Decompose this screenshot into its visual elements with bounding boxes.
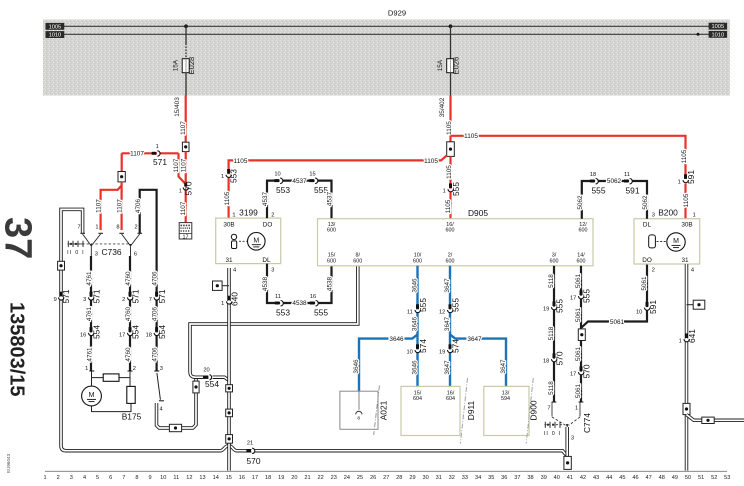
C774 detent symbol bbox=[545, 422, 564, 428]
svg-text:135803/15: 135803/15 bbox=[6, 302, 28, 397]
component D911 box bbox=[401, 386, 460, 435]
B175 bottom link bbox=[92, 403, 132, 411]
svg-text:553: 553 bbox=[276, 185, 290, 195]
svg-text:1005: 1005 bbox=[711, 24, 724, 30]
svg-text:30B: 30B bbox=[223, 221, 234, 228]
connector 16 / 555 on 4538 bbox=[310, 301, 318, 306]
svg-text:1105: 1105 bbox=[683, 193, 690, 207]
svg-text:6: 6 bbox=[109, 475, 112, 481]
svg-text:4: 4 bbox=[83, 475, 86, 481]
svg-text:591: 591 bbox=[648, 300, 658, 314]
svg-text:6: 6 bbox=[134, 252, 137, 258]
svg-text:5118: 5118 bbox=[548, 274, 555, 288]
svg-text:C774: C774 bbox=[582, 413, 592, 433]
svg-text:1107: 1107 bbox=[130, 151, 144, 158]
D911 pin 16/604 bbox=[446, 390, 455, 402]
connector 21 / 570 on bottom rail bbox=[246, 449, 251, 452]
svg-text:15A: 15A bbox=[437, 59, 444, 71]
B175 resistor vertical bbox=[127, 386, 135, 403]
svg-text:51: 51 bbox=[698, 475, 704, 481]
svg-text:4760: 4760 bbox=[125, 306, 132, 321]
wire 1105 down to D905 16/600 bbox=[449, 156, 451, 218]
connector 7 / 571 on wire 4706 bbox=[154, 292, 159, 300]
svg-text:591: 591 bbox=[686, 170, 696, 184]
junction box on 8/600 drop bbox=[193, 381, 199, 393]
svg-text:20: 20 bbox=[203, 367, 209, 373]
svg-text:11: 11 bbox=[624, 172, 630, 178]
svg-text:A021: A021 bbox=[378, 400, 388, 420]
svg-text:7: 7 bbox=[149, 297, 152, 303]
connector 20 / 554 branch bbox=[213, 377, 229, 380]
svg-text:45: 45 bbox=[619, 475, 625, 481]
svg-text:B200: B200 bbox=[658, 207, 678, 217]
connector 18 / 570 on 5118 bbox=[552, 353, 557, 361]
svg-text:604: 604 bbox=[446, 396, 455, 402]
svg-text:3: 3 bbox=[83, 297, 86, 303]
svg-text:28: 28 bbox=[396, 475, 402, 481]
svg-text:46: 46 bbox=[632, 475, 638, 481]
svg-text:21: 21 bbox=[304, 475, 310, 481]
svg-text:4761: 4761 bbox=[86, 306, 93, 321]
svg-text:591: 591 bbox=[626, 185, 640, 195]
D905 pin 8/600 bbox=[353, 253, 362, 265]
wire 3646 from D905 10/600 bbox=[416, 266, 418, 387]
svg-text:1107: 1107 bbox=[96, 199, 103, 213]
svg-text:3: 3 bbox=[70, 475, 73, 481]
connector 10 / 574 on 3646 bbox=[415, 344, 420, 352]
D905 pin 3/600 bbox=[550, 253, 559, 265]
wire from rail 1005 to fuse E026 bbox=[450, 26, 452, 58]
svg-text:553: 553 bbox=[229, 169, 239, 183]
svg-text:4537: 4537 bbox=[292, 178, 307, 185]
A021 divider slant bbox=[374, 386, 380, 435]
svg-text:3646: 3646 bbox=[412, 360, 419, 375]
C774 pin 1 tick bbox=[579, 401, 584, 403]
wire 5062 bbox=[582, 181, 647, 219]
svg-text:B175: B175 bbox=[122, 412, 142, 422]
svg-text:14: 14 bbox=[213, 475, 219, 481]
svg-text:10: 10 bbox=[636, 310, 642, 316]
svg-text:2: 2 bbox=[271, 212, 274, 218]
svg-text:1: 1 bbox=[443, 189, 446, 195]
wire rail 1010 bbox=[64, 33, 709, 35]
D905 pin 16/600 bbox=[446, 222, 455, 234]
B175 pin 1 tick bbox=[89, 370, 94, 372]
D905 pin 13/600 bbox=[327, 222, 336, 234]
svg-text:39: 39 bbox=[541, 475, 547, 481]
C736 detent symbol bbox=[68, 241, 85, 247]
junction box on ground wire x61 bbox=[58, 261, 65, 270]
svg-text:15A: 15A bbox=[172, 59, 179, 71]
svg-text:4706: 4706 bbox=[152, 271, 159, 286]
svg-text:5061: 5061 bbox=[575, 273, 582, 288]
splice reference box bbox=[179, 223, 192, 241]
node dot rail 1010 right bbox=[697, 33, 700, 36]
svg-text:4760: 4760 bbox=[125, 347, 132, 362]
svg-text:5: 5 bbox=[96, 475, 99, 481]
wire 1107 branch to C736 pin 1 bbox=[101, 186, 122, 231]
svg-text:16: 16 bbox=[239, 475, 245, 481]
svg-text:1107: 1107 bbox=[180, 201, 187, 215]
connector 12 / 555 on 3647 bbox=[448, 304, 453, 312]
wire 1107 to C736 pin 8 bbox=[120, 182, 122, 230]
B200 motor bbox=[667, 233, 685, 251]
svg-text:570: 570 bbox=[247, 456, 261, 466]
connector 1 / 571 inline bbox=[152, 151, 160, 156]
svg-text:4538: 4538 bbox=[262, 276, 269, 291]
D900 divider slant bbox=[526, 378, 533, 444]
svg-text:4538: 4538 bbox=[327, 276, 334, 291]
svg-text:25: 25 bbox=[357, 475, 363, 481]
svg-text:1: 1 bbox=[232, 212, 235, 218]
svg-text:40: 40 bbox=[554, 475, 560, 481]
svg-text:2: 2 bbox=[652, 267, 655, 273]
svg-text:574: 574 bbox=[418, 339, 428, 353]
svg-text:1: 1 bbox=[44, 475, 47, 481]
svg-text:DL: DL bbox=[643, 221, 652, 228]
svg-text:600: 600 bbox=[327, 258, 336, 264]
wire 1107 corner down to junction bbox=[121, 153, 123, 171]
svg-text:1: 1 bbox=[179, 189, 182, 195]
svg-text:DL: DL bbox=[262, 257, 271, 264]
svg-text:19: 19 bbox=[439, 349, 445, 355]
svg-text:1: 1 bbox=[679, 339, 682, 345]
svg-text:1107: 1107 bbox=[181, 158, 188, 172]
connector 11 / 591 on 5062 bbox=[624, 179, 632, 184]
wire 4706 from C736 pin 2 up and over bbox=[140, 190, 157, 250]
svg-text:555: 555 bbox=[418, 298, 428, 312]
svg-text:31: 31 bbox=[681, 257, 689, 264]
wire 3647 branch to D900 bbox=[450, 335, 506, 387]
svg-text:1107: 1107 bbox=[180, 121, 187, 135]
svg-text:1105: 1105 bbox=[234, 158, 248, 165]
svg-text:52: 52 bbox=[711, 475, 717, 481]
svg-text:570: 570 bbox=[554, 351, 564, 365]
svg-text:D905: D905 bbox=[468, 208, 488, 218]
B200 motor link dashed bbox=[657, 241, 667, 243]
svg-text:555: 555 bbox=[451, 298, 461, 312]
grid ruler line bbox=[45, 470, 727, 472]
svg-text:11: 11 bbox=[275, 294, 281, 300]
svg-text:47: 47 bbox=[645, 475, 651, 481]
svg-text:555: 555 bbox=[314, 307, 328, 317]
svg-text:II 0 I: II 0 I bbox=[67, 250, 85, 256]
svg-text:II 0 I: II 0 I bbox=[544, 431, 562, 437]
svg-text:1: 1 bbox=[678, 179, 681, 185]
B175 pin 2 tick bbox=[128, 370, 133, 372]
svg-text:5062: 5062 bbox=[607, 178, 622, 185]
connector 10 / 553 on 4537 bbox=[274, 178, 282, 183]
wire fuse E028 to panel edge bbox=[185, 73, 187, 96]
svg-text:5061: 5061 bbox=[575, 383, 582, 398]
svg-text:555: 555 bbox=[581, 289, 591, 303]
connector 1 / 591 red bbox=[683, 174, 688, 182]
C774 pin 7 tick bbox=[552, 401, 557, 403]
svg-text:600: 600 bbox=[577, 258, 586, 264]
connector 1 / 553 on red drop to 3199 bbox=[228, 170, 230, 218]
component D905 box bbox=[318, 219, 594, 266]
svg-text:49: 49 bbox=[672, 475, 678, 481]
svg-text:4706: 4706 bbox=[135, 198, 142, 213]
svg-text:18: 18 bbox=[590, 172, 596, 178]
svg-text:12: 12 bbox=[186, 475, 192, 481]
svg-text:4537: 4537 bbox=[262, 191, 269, 206]
A021 internal wire and socket bbox=[356, 391, 362, 421]
wire 4760 bbox=[129, 256, 131, 371]
svg-text:600: 600 bbox=[446, 258, 455, 264]
svg-text:16: 16 bbox=[310, 294, 316, 300]
svg-text:18: 18 bbox=[543, 359, 549, 365]
svg-text:571: 571 bbox=[92, 289, 102, 303]
svg-text:1105: 1105 bbox=[446, 165, 453, 179]
svg-text:3646: 3646 bbox=[389, 336, 404, 343]
svg-text:30: 30 bbox=[422, 475, 428, 481]
connector 19 / 574 on 3647 bbox=[448, 344, 453, 352]
C736 switch contacts left (7/1 to 3) bbox=[83, 234, 101, 256]
svg-text:555: 555 bbox=[554, 299, 564, 313]
svg-text:5118: 5118 bbox=[548, 326, 555, 340]
ground wire stub C736 pin 7 bbox=[61, 209, 221, 450]
wire 4537 bbox=[267, 181, 332, 219]
svg-text:1005: 1005 bbox=[49, 24, 62, 30]
svg-text:15/403: 15/403 bbox=[174, 97, 181, 117]
svg-text:4761: 4761 bbox=[87, 347, 94, 362]
connector 1 / 555 red bbox=[448, 183, 453, 191]
svg-text:3646: 3646 bbox=[412, 316, 419, 331]
svg-text:DO: DO bbox=[263, 221, 273, 228]
svg-text:570: 570 bbox=[581, 364, 591, 378]
node dot rail 1005 / E026 bbox=[449, 24, 453, 28]
svg-text:571: 571 bbox=[157, 289, 167, 303]
component 3199 box bbox=[216, 218, 281, 264]
svg-text:9: 9 bbox=[54, 297, 57, 303]
svg-text:1105: 1105 bbox=[424, 158, 438, 165]
grid ruler numbers 1-53 bbox=[44, 475, 731, 481]
svg-text:36: 36 bbox=[501, 475, 507, 481]
svg-text:3: 3 bbox=[652, 212, 655, 218]
svg-text:3647: 3647 bbox=[444, 360, 451, 375]
B175 motor bbox=[91, 378, 93, 387]
svg-text:4706: 4706 bbox=[152, 306, 159, 321]
svg-text:17: 17 bbox=[119, 332, 125, 338]
svg-text:17: 17 bbox=[252, 475, 258, 481]
svg-text:37: 37 bbox=[514, 475, 520, 481]
svg-text:44: 44 bbox=[606, 475, 612, 481]
connector 3 / 571 on wire 4761 bbox=[89, 292, 94, 300]
svg-text:17: 17 bbox=[570, 372, 576, 378]
junction box on wire 1107 bbox=[182, 142, 189, 151]
svg-text:37: 37 bbox=[0, 217, 39, 259]
svg-text:1105: 1105 bbox=[681, 149, 688, 163]
wire 1105 branch left to connector 553 bbox=[229, 156, 447, 171]
svg-text:1: 1 bbox=[221, 174, 224, 180]
wire from rail 1005 to fuse E028 bbox=[185, 26, 187, 58]
label box 1005 left bbox=[46, 23, 65, 31]
fuse E028 15A bbox=[182, 59, 189, 73]
connector 1 / 570 inline bbox=[185, 183, 187, 222]
svg-text:29: 29 bbox=[409, 475, 415, 481]
svg-text:3: 3 bbox=[571, 435, 574, 441]
svg-text:554: 554 bbox=[157, 325, 167, 339]
svg-text:4: 4 bbox=[691, 267, 694, 273]
svg-text:571: 571 bbox=[153, 157, 167, 167]
B200 actuator symbol bbox=[649, 235, 656, 248]
svg-text:1105: 1105 bbox=[224, 191, 231, 205]
svg-text:2: 2 bbox=[122, 297, 125, 303]
D911 divider slant bbox=[460, 378, 467, 444]
svg-text:5061: 5061 bbox=[641, 276, 648, 291]
svg-text:1105: 1105 bbox=[446, 121, 453, 135]
C774 common ground wire bbox=[565, 427, 569, 456]
svg-text:7: 7 bbox=[77, 224, 80, 230]
wire 1107 from junction to connector 570 bbox=[185, 152, 187, 184]
svg-text:1105: 1105 bbox=[445, 199, 452, 213]
svg-text:4538: 4538 bbox=[292, 300, 307, 307]
svg-text:24: 24 bbox=[344, 475, 350, 481]
svg-text:1105: 1105 bbox=[464, 133, 478, 140]
wire 5061 from D905 14/600 bbox=[580, 266, 582, 402]
svg-text:3: 3 bbox=[160, 366, 163, 372]
node dot rail 1005 / E028 bbox=[184, 24, 188, 28]
D905 pin 2/600 bbox=[446, 253, 455, 265]
svg-text:5061: 5061 bbox=[610, 319, 625, 326]
svg-text:600: 600 bbox=[550, 258, 559, 264]
svg-text:EU96043: EU96043 bbox=[6, 453, 11, 473]
svg-text:594: 594 bbox=[501, 396, 510, 402]
svg-text:11: 11 bbox=[407, 309, 413, 315]
wire 1107 horizontal to C736 branch bbox=[122, 152, 179, 154]
svg-text:7: 7 bbox=[122, 475, 125, 481]
svg-text:48: 48 bbox=[659, 475, 665, 481]
svg-text:600: 600 bbox=[413, 258, 422, 264]
wire 4538 bbox=[267, 264, 332, 303]
svg-text:35: 35 bbox=[488, 475, 494, 481]
svg-text:640: 640 bbox=[229, 292, 239, 306]
connector 16 / 554 on wire 4761 bbox=[89, 327, 94, 335]
component D900 box bbox=[484, 386, 529, 435]
svg-text:M: M bbox=[89, 392, 95, 399]
svg-text:571: 571 bbox=[61, 289, 71, 303]
D900 pin 13/594 bbox=[501, 390, 510, 402]
svg-text:3647: 3647 bbox=[444, 278, 451, 293]
svg-text:574: 574 bbox=[451, 339, 461, 353]
svg-text:35/402: 35/402 bbox=[439, 97, 446, 117]
junction box A on wire 640 bbox=[226, 385, 233, 392]
svg-text:3647: 3647 bbox=[467, 336, 482, 343]
D905 pin 15/600 bbox=[327, 253, 336, 265]
svg-text:3199: 3199 bbox=[239, 207, 258, 217]
svg-text:C736: C736 bbox=[101, 247, 121, 257]
svg-text:12: 12 bbox=[439, 309, 445, 315]
connector 11 / 553 on 4538 bbox=[275, 301, 283, 306]
D911 pin 15/604 bbox=[413, 390, 422, 402]
stub box right of 641 bbox=[687, 304, 694, 306]
svg-text:2: 2 bbox=[57, 475, 60, 481]
svg-text:53: 53 bbox=[724, 475, 730, 481]
B175 pin 4 tick bbox=[159, 400, 164, 402]
svg-text:2: 2 bbox=[133, 366, 136, 372]
svg-text:10: 10 bbox=[274, 172, 280, 178]
svg-text:18: 18 bbox=[146, 332, 152, 338]
svg-text:570: 570 bbox=[184, 181, 194, 195]
wire 35/402 red from fuse E026 bbox=[449, 96, 451, 142]
connector 18 / 554 on wire 4706 bbox=[154, 327, 159, 335]
junction box C on wire 640 bbox=[226, 435, 233, 444]
svg-text:41: 41 bbox=[567, 475, 573, 481]
C774 switch contacts bbox=[552, 403, 580, 428]
svg-text:20: 20 bbox=[291, 475, 297, 481]
connector 9 / 571 on ground wire bbox=[59, 292, 64, 300]
svg-text:9: 9 bbox=[149, 475, 152, 481]
svg-text:3647: 3647 bbox=[444, 316, 451, 331]
label box 1005 right bbox=[709, 23, 728, 31]
svg-text:3646: 3646 bbox=[353, 359, 360, 374]
svg-text:1010: 1010 bbox=[49, 33, 62, 39]
connector 2 / 571 on wire 4760 bbox=[128, 292, 133, 300]
wire 4706 lower bbox=[156, 250, 158, 371]
svg-text:21: 21 bbox=[247, 441, 253, 447]
svg-text:22: 22 bbox=[317, 475, 323, 481]
D905 pin 14/600 bbox=[577, 253, 586, 265]
svg-text:D929: D929 bbox=[388, 9, 406, 18]
svg-text:M: M bbox=[673, 238, 679, 245]
svg-text:4537: 4537 bbox=[327, 191, 334, 206]
svg-text:27: 27 bbox=[383, 475, 389, 481]
svg-text:571: 571 bbox=[131, 289, 141, 303]
bus bar panel (fuse box area) bbox=[43, 20, 730, 96]
label box 1010 right bbox=[709, 31, 728, 39]
svg-text:4761: 4761 bbox=[86, 271, 93, 286]
svg-text:4760: 4760 bbox=[125, 271, 132, 286]
svg-text:600: 600 bbox=[353, 258, 362, 264]
wire 3647 from D905 2/600 bbox=[449, 266, 451, 387]
wire 15/403 red feed from fuse E028 bbox=[185, 96, 187, 143]
C736 gang dashed link bbox=[69, 243, 129, 245]
wire rail 1005 bbox=[64, 25, 709, 27]
svg-text:17: 17 bbox=[183, 234, 189, 240]
connector 19 / 555 on 5118 bbox=[552, 301, 557, 309]
svg-text:1: 1 bbox=[95, 224, 98, 230]
svg-text:5062: 5062 bbox=[577, 195, 584, 210]
label box 1010 left bbox=[46, 31, 65, 38]
svg-text:D911: D911 bbox=[466, 400, 476, 420]
B175 resistor horizontal bbox=[103, 374, 119, 381]
svg-text:4: 4 bbox=[160, 406, 163, 412]
wire 5061 branch from B200 DO bbox=[582, 264, 648, 328]
ground wire from B175 pin 4 bbox=[157, 377, 197, 428]
svg-text:33: 33 bbox=[462, 475, 468, 481]
ground branch to right edge bbox=[687, 415, 744, 421]
svg-text:600: 600 bbox=[327, 228, 336, 234]
svg-text:553: 553 bbox=[276, 307, 290, 317]
svg-text:34: 34 bbox=[475, 475, 481, 481]
junction box on B175 ground run bbox=[169, 424, 181, 431]
svg-text:DO: DO bbox=[642, 257, 652, 264]
junction box on 641 bbox=[683, 403, 690, 414]
svg-text:15: 15 bbox=[226, 475, 232, 481]
ground wire 641 from B200 pin 4 bbox=[685, 264, 689, 471]
component A021 box bbox=[340, 391, 378, 429]
wire 4761 bbox=[90, 256, 92, 371]
svg-text:4: 4 bbox=[233, 267, 236, 273]
svg-text:7: 7 bbox=[547, 405, 550, 411]
fuse E026 15A bbox=[447, 59, 454, 73]
svg-text:30B: 30B bbox=[681, 221, 692, 228]
stub box left of wire 640 bbox=[222, 285, 229, 287]
connector 17 / 554 on wire 4760 bbox=[128, 327, 133, 335]
svg-text:4706: 4706 bbox=[152, 347, 159, 362]
svg-text:5118: 5118 bbox=[548, 381, 555, 395]
